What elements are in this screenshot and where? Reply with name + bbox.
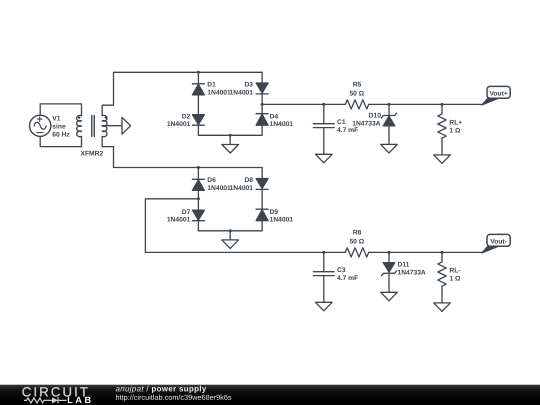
node D10	[388, 103, 391, 106]
diode D7	[192, 210, 204, 221]
node C1	[322, 103, 325, 106]
node Vout- flag	[482, 234, 510, 253]
wire bridge1 right mid	[261, 94, 263, 114]
ground bridge2	[222, 240, 239, 249]
ground D11	[381, 292, 398, 301]
svg-text:XFMR2: XFMR2	[81, 150, 104, 157]
svg-text:D11: D11	[398, 262, 410, 269]
RL- labels	[449, 268, 461, 283]
logo CIRCUIT	[22, 387, 87, 396]
wire bridge2 right column lower	[261, 221, 263, 231]
svg-text:50 Ω: 50 Ω	[349, 238, 364, 245]
node bridge1 bottom center	[229, 134, 232, 137]
ground bridge1	[222, 145, 239, 154]
diode D1	[192, 84, 204, 95]
node bridge1 output	[261, 103, 264, 106]
ground RL+	[434, 155, 451, 164]
wire bridge1 to R5	[262, 103, 345, 105]
D10 labels	[352, 113, 381, 128]
svg-text:RL-: RL-	[449, 268, 460, 275]
svg-text:D4: D4	[270, 113, 279, 120]
svg-text:1N4001: 1N4001	[207, 90, 231, 97]
svg-text:1N4001: 1N4001	[230, 185, 254, 192]
node RL-	[441, 251, 444, 254]
svg-text:1N4001: 1N4001	[230, 90, 254, 97]
svg-text:1N4733A: 1N4733A	[352, 120, 380, 127]
wire bridge1 bottom rail	[198, 134, 262, 136]
zener D10	[381, 104, 396, 144]
wire bridge1 left column upper	[197, 72, 199, 84]
D11 labels	[398, 262, 426, 277]
diode D9	[256, 209, 268, 221]
resistor RL-	[438, 252, 446, 303]
diode D6	[192, 179, 204, 190]
diode D2	[192, 115, 204, 126]
node RL+	[441, 103, 444, 106]
node bridge2 output	[197, 197, 200, 200]
capacitor C1	[313, 104, 334, 154]
wire R5 to Vout+	[369, 103, 483, 105]
node Vout+ flag	[482, 86, 510, 105]
wire bridge2 right column upper	[261, 168, 263, 179]
svg-text:1 Ω: 1 Ω	[449, 127, 461, 134]
svg-text:D2: D2	[182, 113, 191, 120]
logo squiggle diode	[52, 397, 58, 403]
svg-text:1N4001: 1N4001	[167, 217, 191, 224]
node at bridge1 top	[197, 71, 200, 74]
svg-text:sine: sine	[52, 123, 66, 130]
svg-text:D6: D6	[207, 177, 216, 184]
svg-text:C3: C3	[337, 267, 346, 274]
svg-text:D7: D7	[182, 209, 191, 216]
svg-text:D9: D9	[270, 209, 279, 216]
ground (rotated) at center tap	[122, 117, 131, 134]
wire R8 to Vout-	[369, 251, 483, 253]
C3 labels	[337, 267, 358, 282]
wire bridge2 bottom rail	[198, 230, 262, 232]
wire secondary top to bridge1 top rail	[102, 72, 262, 115]
svg-text:D10: D10	[369, 113, 382, 120]
svg-text:1N4001: 1N4001	[270, 121, 294, 128]
wire bridge2 left column upper	[197, 168, 199, 180]
svg-text:1 Ω: 1 Ω	[449, 275, 461, 282]
wire bridge1 left mid	[197, 95, 199, 115]
node bridge2 bottom center	[229, 229, 232, 232]
node C3	[322, 251, 325, 254]
svg-text:1N4001: 1N4001	[167, 121, 191, 128]
wire secondary center tap	[102, 125, 122, 127]
voltage source V1	[30, 115, 51, 136]
svg-text:C1: C1	[337, 119, 346, 126]
resistor RL+	[438, 104, 446, 154]
diode D3	[256, 83, 268, 94]
svg-text:R8: R8	[353, 230, 362, 237]
resistor R8	[345, 248, 368, 257]
svg-text:RL+: RL+	[449, 120, 462, 127]
diode D4	[256, 114, 268, 126]
wire bridge2 left mid	[197, 190, 199, 210]
wire bridge1 left column lower	[197, 125, 199, 135]
wire ground stem bridge1	[229, 135, 231, 144]
RL+ labels	[449, 120, 462, 135]
transformer XFMR2	[77, 115, 107, 136]
svg-text:D1: D1	[207, 81, 216, 88]
wire bridge2 left column lower	[197, 221, 199, 231]
node D11	[388, 251, 391, 254]
svg-text:R5: R5	[353, 82, 362, 89]
wire ground stem bridge2	[229, 231, 231, 240]
R8 labels	[349, 230, 364, 246]
svg-text:4.7 mF: 4.7 mF	[337, 127, 358, 134]
zener D11	[381, 252, 396, 292]
V1 labels	[52, 115, 70, 138]
svg-text:D8: D8	[244, 177, 253, 184]
svg-text:50 Ω: 50 Ω	[349, 90, 364, 97]
wire V1 bottom to primary	[40, 136, 81, 146]
logo squiggle resistor	[24, 398, 52, 403]
wire bridge2 to R8	[145, 251, 345, 253]
svg-text:V1: V1	[52, 115, 60, 122]
ground C3	[316, 302, 333, 311]
R5 labels	[349, 82, 364, 98]
footer title	[116, 386, 207, 393]
C1 labels	[337, 119, 358, 134]
svg-text:D3: D3	[244, 81, 253, 88]
svg-text:1N4001: 1N4001	[270, 217, 294, 224]
capacitor C3	[313, 252, 334, 302]
svg-text:Vout-: Vout-	[490, 238, 507, 245]
wire V1 top to primary	[40, 104, 81, 116]
footer url	[116, 395, 231, 402]
bridge2 labels	[167, 177, 293, 224]
wire bridge1 right column upper	[261, 72, 263, 83]
svg-text:1N4001: 1N4001	[207, 185, 231, 192]
bridge1 labels	[167, 81, 293, 128]
svg-text:4.7 mF: 4.7 mF	[337, 275, 358, 282]
resistor R5	[345, 100, 368, 109]
wire secondary bottom to bridge2 top rail	[102, 136, 262, 167]
node at bridge2 top	[197, 166, 200, 169]
wire bridge2 output to bottom rail	[145, 199, 198, 253]
diode D8	[256, 179, 268, 190]
ground C1	[316, 154, 333, 163]
wire bridge1 right column lower	[261, 125, 263, 135]
ground D10	[381, 144, 398, 153]
svg-text:60 Hz: 60 Hz	[52, 132, 70, 139]
svg-text:Vout+: Vout+	[489, 90, 507, 97]
logo LAB	[68, 397, 91, 403]
wire bridge2 right mid	[261, 189, 263, 209]
ground RL-	[434, 303, 451, 312]
svg-text:1N4733A: 1N4733A	[398, 270, 426, 277]
